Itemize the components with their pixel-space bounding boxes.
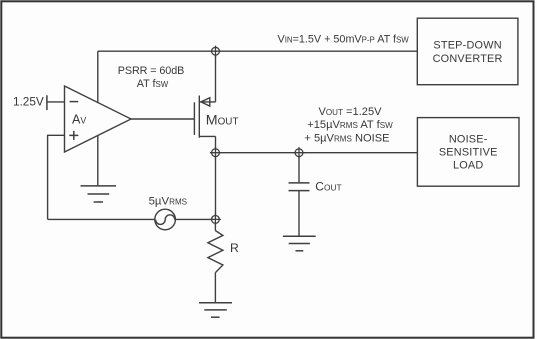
wire source to VOUT node — [215, 136, 217, 148]
transistor MOUT (PMOS) — [194, 96, 215, 138]
node COUT junction — [293, 147, 304, 158]
label VOUT equation — [304, 106, 393, 144]
svg-text:AT fSW: AT fSW — [137, 78, 169, 90]
svg-text:STEP-DOWN: STEP-DOWN — [433, 40, 501, 52]
block STEP-DOWN CONVERTER — [417, 18, 518, 85]
wire left leg to source — [48, 218, 155, 220]
ground R — [199, 303, 232, 318]
svg-text:+ 5µVRMS NOISE: + 5µVRMS NOISE — [304, 132, 389, 144]
wire COUT to ground — [298, 191, 300, 237]
svg-text:PSRR = 60dB: PSRR = 60dB — [118, 65, 184, 77]
node R junction — [210, 214, 221, 225]
wire node to resistor — [214, 223, 216, 230]
svg-text:VIN=1.5V + 50mVP-P AT fSW: VIN=1.5V + 50mVP-P AT fSW — [278, 34, 410, 46]
svg-text:CONVERTER: CONVERTER — [433, 53, 503, 65]
svg-text:SENSITIVE: SENSITIVE — [439, 147, 498, 159]
svg-text:+15µVRMS AT fSW: +15µVRMS AT fSW — [307, 119, 393, 131]
wire COUT branch — [298, 157, 300, 183]
wire op-amp output to gate — [131, 118, 194, 120]
svg-text:NOISE-: NOISE- — [449, 134, 488, 146]
node VOUT junction — [210, 147, 221, 158]
block NOISE-SENSITIVE LOAD — [417, 118, 519, 187]
wire resistor to ground — [214, 273, 216, 303]
wire VOUT node down to R node — [215, 157, 217, 216]
wire inverting input — [47, 101, 65, 103]
svg-text:AV: AV — [72, 112, 86, 126]
svg-text:VOUT =1.25V: VOUT =1.25V — [318, 106, 382, 118]
capacitor COUT — [289, 183, 310, 191]
source 1.25V reference tick — [46, 95, 48, 110]
op-amp U1 triangle — [65, 86, 132, 152]
resistor R — [208, 231, 223, 273]
ground COUT — [283, 236, 316, 251]
wire drain to VIN node — [215, 55, 217, 102]
wire VIN rail (top) — [98, 50, 418, 52]
svg-text:5µVRMS: 5µVRMS — [149, 195, 188, 207]
node VIN junction — [210, 46, 221, 57]
source 5uVRMS sine generator — [155, 209, 176, 230]
svg-text:COUT: COUT — [315, 180, 341, 194]
svg-text:R: R — [230, 241, 239, 255]
op-amp plus input mark — [69, 131, 78, 140]
wire op-amp ground stub — [97, 136, 99, 186]
wire non-inverting input — [48, 135, 65, 219]
wire VOUT rail — [219, 152, 417, 154]
ground op-amp — [81, 186, 117, 202]
svg-text:1.25V: 1.25V — [13, 95, 44, 109]
svg-text:LOAD: LOAD — [453, 160, 483, 172]
op-amp minus input mark — [70, 101, 79, 103]
wire op-amp supply drop — [97, 51, 99, 102]
wire source to R node — [175, 218, 211, 220]
